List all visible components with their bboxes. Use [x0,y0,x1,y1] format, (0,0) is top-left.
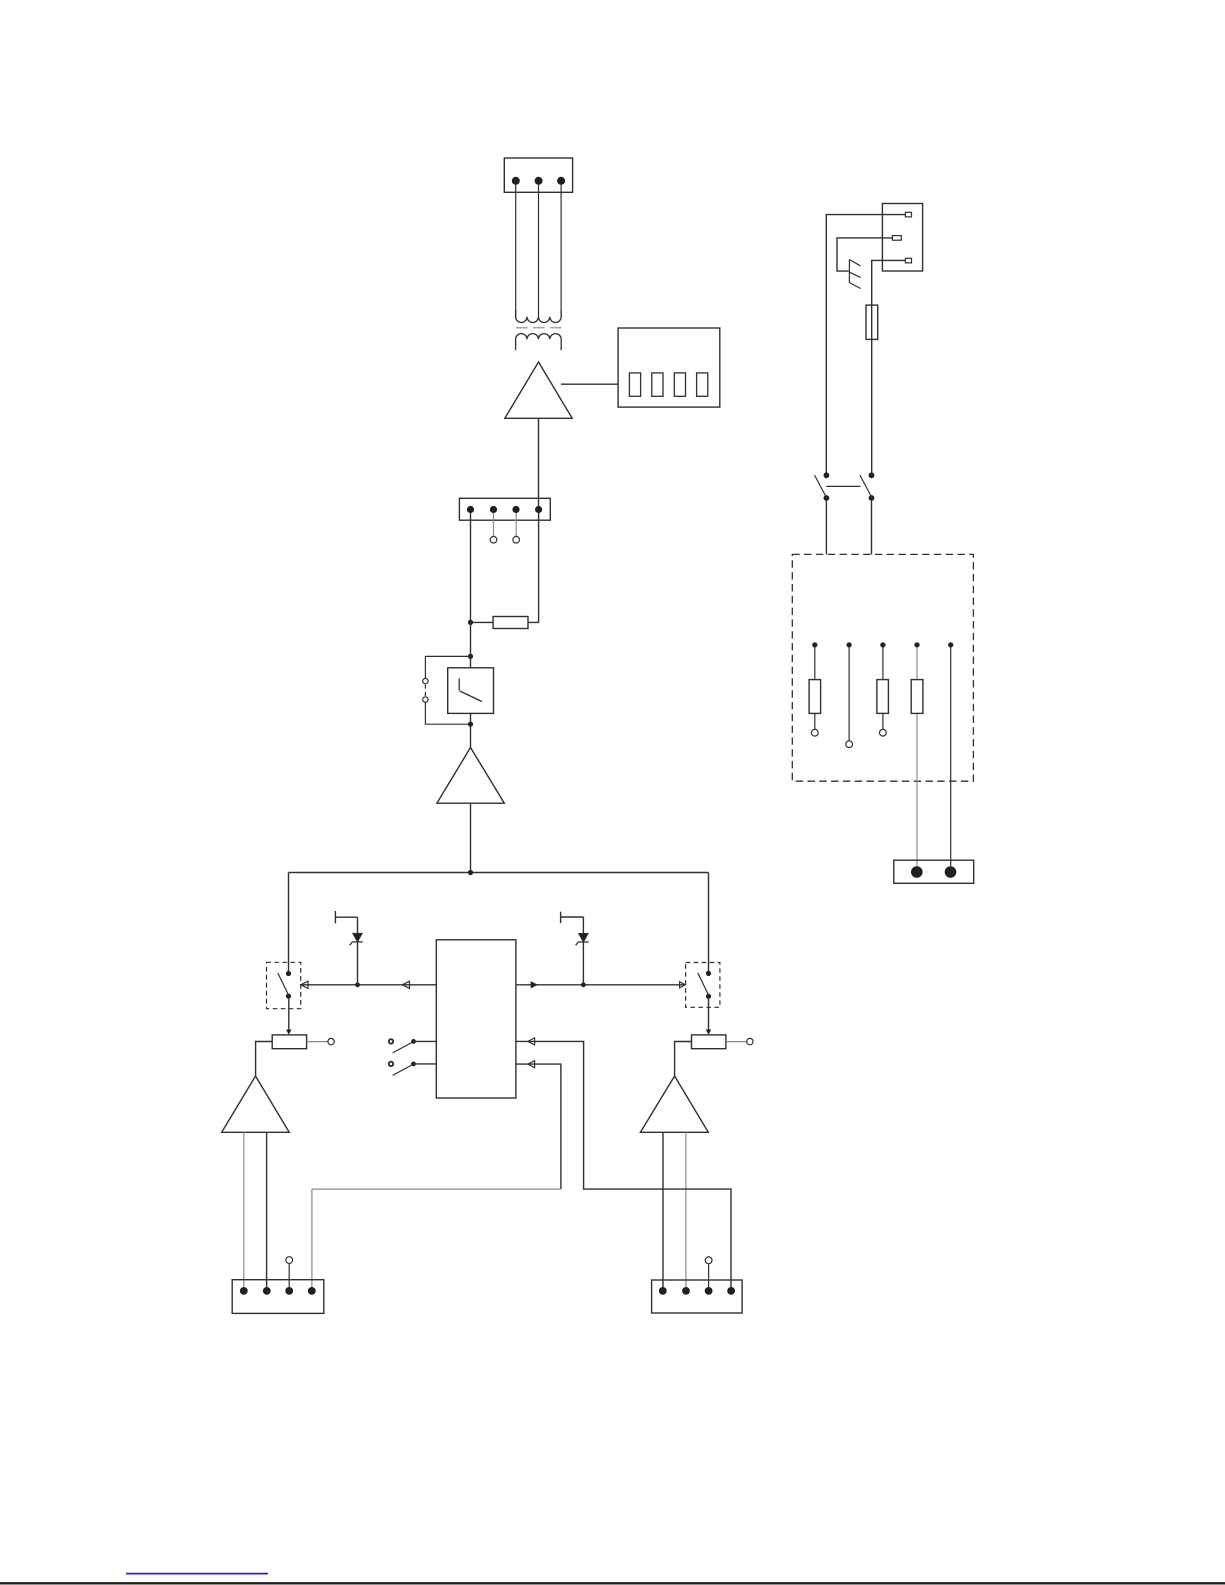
wire [515,184,517,317]
node [468,870,473,875]
wire [470,713,472,724]
switch link [826,485,860,487]
zener diode D2 [561,912,589,985]
resistor R1 [493,617,528,629]
terminal [490,536,497,543]
wire [266,1132,268,1287]
wire [470,622,472,656]
node [915,643,919,647]
arrow [528,1038,535,1045]
switch S2 [267,962,301,1008]
wire [708,1264,710,1287]
wire [288,1264,290,1287]
SECTION: top transformer chain [504,158,720,506]
wire [848,647,850,741]
connector P1 [504,158,572,192]
wire [837,238,892,271]
fuse panel box [792,554,973,781]
arrow [531,981,538,988]
node [813,643,817,647]
op-amp A2 [437,748,504,804]
wire [662,1132,664,1287]
wire rail to S2 [301,984,437,986]
node [581,982,586,987]
node [949,643,953,647]
wire [708,873,710,972]
arrow [301,981,308,988]
zener diode D1 [335,911,362,985]
fuse F3 [877,647,889,729]
control box U2 [618,328,720,407]
transformer T1 [516,310,562,350]
op-amp A4 [640,1076,708,1132]
switch S3 [389,1039,437,1053]
terminal [880,729,887,736]
wire [515,513,517,536]
wire feedback right [516,1041,731,1287]
arrow [286,1030,291,1035]
wire [470,803,472,872]
wire [311,1189,313,1287]
footer link line [126,1573,268,1575]
wire [685,1132,687,1287]
wire [872,260,906,305]
op-amp A1 [505,362,572,418]
switch S6b [860,472,874,501]
connector J2 [459,498,550,520]
connector J4 [652,1280,743,1313]
node [847,643,851,647]
SECTION: central distribution [222,870,753,1287]
SECTION: right power side [792,204,973,884]
fuse F4 [911,647,923,866]
wire [871,501,873,555]
wire [470,724,472,747]
SECTION: bottom connectors [232,1257,742,1314]
wire main rail [289,872,709,874]
wire [470,513,472,622]
connector J3 [232,1280,324,1314]
SECTION: footer [0,1574,1225,1584]
terminal [286,1257,293,1264]
terminal [705,1257,712,1264]
SECTION: middle chain [423,498,551,872]
arrow [680,982,686,988]
node [468,620,473,625]
wire [708,999,710,1031]
wire [243,1132,245,1287]
wire [538,418,540,506]
wire [950,647,952,866]
terminal [846,741,853,748]
switch S6a [815,472,830,501]
wire [826,215,905,473]
AC inlet P2 [882,204,922,272]
terminal [811,729,818,736]
wire [470,656,472,667]
switch S5 [686,963,720,1008]
footer rule [0,1582,1225,1584]
wire [560,184,562,317]
wire feedback left [516,1064,561,1189]
bypass switch S1 [423,656,471,724]
node [881,643,885,647]
node [468,654,473,659]
terminal [513,536,520,543]
wire [288,873,290,972]
potentiometer VR2 [675,1035,754,1076]
wire [538,184,540,317]
power connector J5 [894,860,974,883]
wire [528,513,539,622]
node [468,722,473,727]
arrow [706,1030,711,1035]
wire [312,1188,561,1190]
arrow [528,1061,535,1068]
wire [871,339,873,473]
node [355,982,360,987]
chassis ground [849,259,860,288]
delay unit U4 [448,668,494,714]
potentiometer VR1 [256,1035,335,1076]
switch S4 [389,1062,437,1076]
wire [288,999,290,1031]
wire [471,621,494,623]
controller U3 [436,940,516,1098]
fuse F2 [809,647,821,729]
fuse F1 [866,305,878,339]
wire [493,513,495,536]
wire [825,501,827,555]
op-amp A3 [222,1076,290,1132]
wire [561,383,618,385]
arrow [402,981,409,988]
wire rail to S5 [516,984,685,986]
